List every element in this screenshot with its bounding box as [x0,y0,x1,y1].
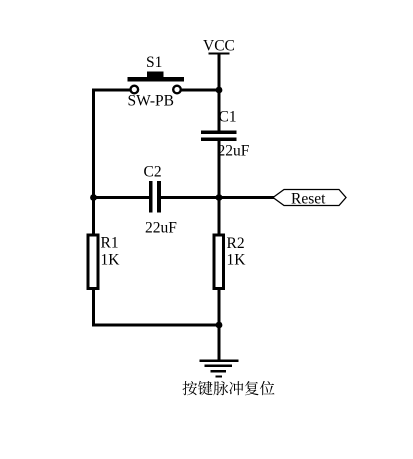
switch S1 left terminal circle [131,86,139,94]
svg-text:VCC: VCC [203,38,235,55]
svg-text:R2: R2 [227,235,245,252]
wire: C2 left lead [92,196,149,199]
ground bar 4 [216,375,223,377]
switch S1 actuator bar [128,77,185,82]
switch S1 button knob [147,72,164,78]
switch S1 right terminal circle [173,86,181,94]
capacitor C1 bottom plate [201,138,237,142]
node: junction dot at left rail and C2 wire [90,194,97,201]
wire: Reset lead [219,196,274,199]
svg-text:Reset: Reset [291,191,326,208]
wire: VCC bar down to C1 top plate (right rail upper) [218,53,221,131]
wire: switch right lead (right terminal to right rail) [181,89,221,92]
capacitor C1 top plate [201,131,237,135]
wire: bottom horizontal wire [92,324,221,327]
svg-text:C2: C2 [144,164,162,181]
ground bar 1 [200,360,239,363]
node: junction dot at right rail and C2/Reset wire [216,194,223,201]
node: junction dot at switch right lead and right rail [216,87,223,94]
ground bar 2 [205,365,233,368]
wire: switch left lead (left rail to left terminal) [92,89,130,92]
svg-text:S1: S1 [146,54,162,71]
capacitor C2 left plate [149,181,153,213]
wire: left rail (top corner down to bottom wire) [92,89,95,327]
resistor R2 body [214,235,224,289]
net label Reset flag outline [273,190,346,206]
svg-text:22uF: 22uF [145,220,177,237]
svg-text:1K: 1K [101,252,121,269]
wire: right rail from C1 bottom plate down to ground stem top [218,141,221,360]
ground bar 3 [211,370,227,373]
wire: C2 right lead [161,196,221,199]
power symbol VCC bar [209,53,230,55]
svg-text:22uF: 22uF [218,143,250,160]
capacitor C2 right plate [157,181,161,213]
svg-text:SW-PB: SW-PB [128,93,175,110]
svg-text:1K: 1K [227,252,247,269]
caption text 按键脉冲复位 [183,381,275,395]
resistor R1 body [88,235,98,289]
node: junction dot at right rail and bottom wire [216,322,223,329]
svg-text:R1: R1 [101,235,119,252]
svg-text:C1: C1 [219,109,237,126]
